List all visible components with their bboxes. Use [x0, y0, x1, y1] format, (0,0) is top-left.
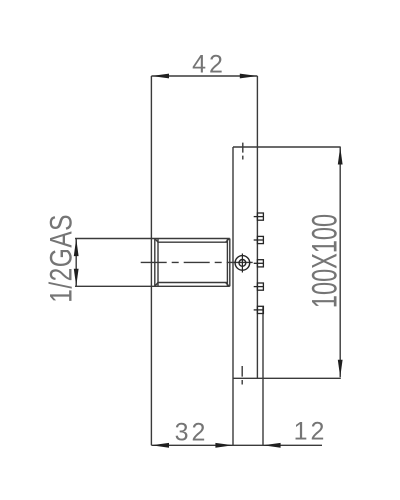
bottom dimension line	[151, 444, 322, 446]
dimension 100X100 up arrow	[338, 147, 343, 165]
nipple right cap outer	[229, 239, 231, 287]
svg-text:100X100: 100X100	[306, 214, 345, 308]
plate back line	[232, 147, 234, 445]
nipple centerline	[141, 261, 256, 263]
nipple left chamfer top	[155, 239, 158, 243]
wall line	[150, 76, 152, 445]
inlet vertical center mark	[241, 254, 243, 273]
dimension 100X100 down arrow	[338, 360, 343, 378]
dimension 42 line	[151, 75, 257, 77]
inlet circle inner	[239, 260, 246, 267]
nipple top line	[75, 238, 230, 240]
svg-text:32: 32	[175, 419, 209, 447]
clip 2	[257, 236, 263, 243]
dimension 42 right arrow	[240, 74, 258, 79]
dimension 100X100 line	[339, 147, 341, 377]
dimension 12 arrow	[263, 443, 281, 448]
inlet circle outer	[235, 256, 250, 271]
plate top edge	[233, 146, 341, 148]
clip 1	[257, 213, 263, 220]
svg-text:42: 42	[192, 50, 226, 78]
dimension 1/2GAS down arrow	[74, 269, 79, 287]
nipple bottom thread line	[158, 282, 227, 284]
dimension 42 left arrow	[151, 74, 169, 79]
plate bottom center mark	[241, 366, 243, 385]
svg-text:1/2GAS: 1/2GAS	[44, 214, 78, 303]
nipple top thread line	[158, 241, 227, 243]
plate front extension line	[256, 76, 258, 378]
clip front extension line	[262, 307, 264, 446]
dimension 1/2GAS up arrow	[74, 239, 79, 257]
clip 5	[257, 306, 263, 313]
dimension 32 left arrow	[151, 443, 169, 448]
nipple bottom line	[75, 285, 230, 287]
nipple left cap inner	[157, 239, 159, 287]
nipple right chamfer bottom	[226, 283, 230, 287]
nipple right cap inner	[226, 239, 228, 287]
nipple left cap outer	[154, 239, 156, 287]
plate top center mark	[242, 143, 244, 160]
svg-text:12: 12	[294, 418, 328, 446]
clip 3	[257, 260, 263, 267]
dimension 32 right arrow	[215, 443, 233, 448]
plate bottom edge	[233, 377, 341, 379]
clip 4	[257, 283, 263, 290]
nipple right chamfer top	[226, 239, 230, 243]
nipple left chamfer bottom	[155, 283, 158, 287]
dimension 1/2GAS line	[75, 239, 77, 287]
